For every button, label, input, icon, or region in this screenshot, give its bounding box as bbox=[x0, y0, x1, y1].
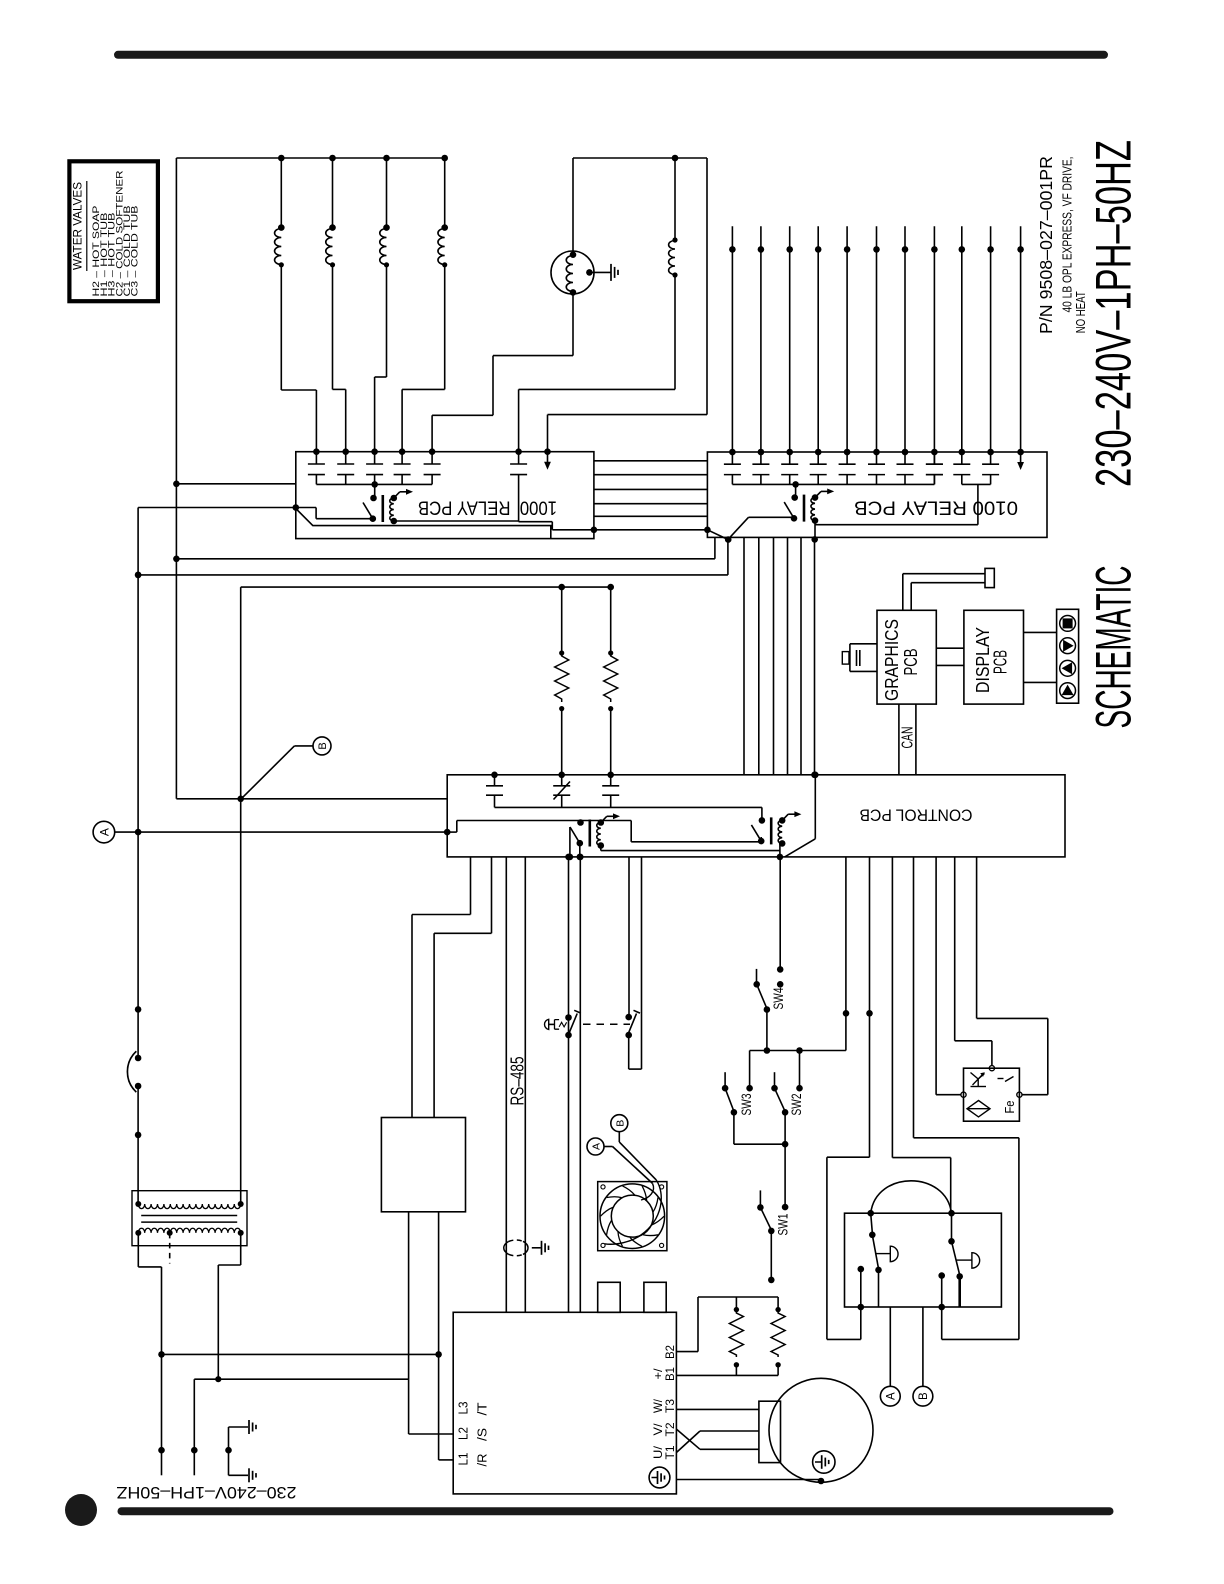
svg-text:T2: T2 bbox=[663, 1422, 677, 1436]
door lock left plunger bbox=[876, 1246, 899, 1262]
display pcb label bbox=[973, 627, 1011, 693]
pump motor M bbox=[551, 158, 594, 296]
relay K1 blade wire bbox=[293, 504, 373, 519]
door lock right blade bbox=[948, 1213, 963, 1307]
speed sensor Fe box bbox=[961, 1066, 1022, 1122]
part number P/N 9508-027-001PR bbox=[1036, 156, 1056, 334]
mains ground terminal bbox=[225, 1420, 256, 1482]
svg-text:T3: T3 bbox=[663, 1399, 677, 1413]
mains wire L2 run bbox=[409, 1379, 454, 1434]
button panel box bbox=[1057, 609, 1079, 703]
wire vfd PE to motor bbox=[676, 1478, 824, 1485]
vfd connector shroud 1 bbox=[598, 1282, 621, 1312]
svg-text:PCB: PCB bbox=[901, 649, 921, 676]
mains label 230-240V-1PH-50HZ bbox=[117, 1483, 297, 1502]
svg-text:A: A bbox=[591, 1143, 603, 1150]
transformer box bbox=[132, 1191, 247, 1246]
wire door sw feed A bbox=[565, 854, 572, 1313]
wire control to Fe right bbox=[977, 857, 1048, 1095]
drain valve coil bbox=[519, 158, 678, 452]
Fe sensor switch icon bbox=[998, 1077, 1014, 1082]
vfd label L1 R bbox=[457, 1452, 490, 1466]
bus wires between relay PCBs bbox=[594, 461, 708, 517]
0100 coil bottom wire bbox=[811, 521, 818, 543]
vfd connector shroud 2 bbox=[644, 1282, 666, 1312]
svg-text:SW2: SW2 bbox=[788, 1093, 804, 1115]
svg-text:1000 RELAY PCB: 1000 RELAY PCB bbox=[418, 497, 557, 518]
wire door sw feed B bbox=[577, 854, 584, 1313]
relay K2 cap feed bbox=[792, 481, 799, 498]
svg-text:SW3: SW3 bbox=[738, 1093, 754, 1115]
svg-text:CONTROL PCB: CONTROL PCB bbox=[860, 806, 973, 825]
wire rail x138 bbox=[138, 508, 296, 1205]
brake resistor R3 bbox=[729, 1297, 743, 1375]
wire control to SW4 bbox=[777, 857, 784, 988]
svg-text:GRAPHICS: GRAPHICS bbox=[882, 619, 902, 701]
door lock left blade bbox=[869, 1213, 882, 1307]
door switch link bbox=[583, 1023, 630, 1025]
wire control pin 913 bbox=[914, 857, 1019, 1340]
wire control pin2 bbox=[434, 857, 491, 1118]
svg-text:A: A bbox=[886, 1392, 898, 1400]
svg-text:/S: /S bbox=[476, 1428, 490, 1441]
valve coil H2 bbox=[275, 155, 317, 452]
resistor R1 bbox=[555, 584, 569, 775]
wire control pin1 bbox=[412, 857, 471, 1118]
svg-text:0100 RELAY PCB: 0100 RELAY PCB bbox=[854, 497, 1018, 518]
valve coil H3 bbox=[375, 155, 390, 452]
svg-text:B: B bbox=[317, 742, 329, 749]
control cap C1 bbox=[486, 772, 503, 808]
wire T3 to motor bbox=[676, 1408, 759, 1410]
svg-text:CAN: CAN bbox=[900, 727, 917, 749]
transformer T1 bbox=[135, 1201, 243, 1236]
label SW4 bbox=[770, 987, 786, 1009]
svg-text:B2: B2 bbox=[663, 1345, 677, 1359]
0100 output wires bbox=[729, 226, 1024, 455]
control MOV RV1 bbox=[553, 772, 570, 808]
bus wire 6 bbox=[591, 527, 732, 543]
label SW1 bbox=[775, 1213, 791, 1235]
0100 relay pcb box bbox=[707, 452, 1047, 537]
control pcb box bbox=[447, 775, 1065, 857]
title SCHEMATIC bbox=[1086, 566, 1142, 729]
wire door lock to node A bbox=[889, 1307, 891, 1386]
vfd ground terminal bbox=[649, 1467, 670, 1488]
CAN label bbox=[900, 727, 917, 749]
graphics pcb box bbox=[877, 610, 936, 704]
node B2 bbox=[913, 1386, 933, 1406]
door switch S2 bbox=[625, 1010, 641, 1069]
RS-485 wires bbox=[506, 857, 525, 1312]
relay coil link wire bbox=[601, 843, 780, 857]
display-button wires bbox=[1024, 632, 1057, 682]
pump ground bbox=[589, 264, 618, 281]
vfd label T2 bbox=[651, 1422, 677, 1436]
0100 pcb arrow pin bbox=[1017, 452, 1024, 470]
door lock solenoid arc bbox=[867, 1181, 954, 1217]
svg-text:T1: T1 bbox=[663, 1445, 677, 1459]
breaker on rail x138 bbox=[127, 1051, 141, 1092]
shelf wire B bbox=[631, 821, 761, 842]
svg-text:B: B bbox=[918, 1392, 930, 1400]
svg-text:230–240V–1PH–50HZ: 230–240V–1PH–50HZ bbox=[117, 1483, 297, 1502]
fan leader A bbox=[587, 1138, 653, 1183]
door lock right terminal bbox=[938, 1272, 945, 1310]
control pcb notch bbox=[777, 772, 819, 861]
svg-text:L1: L1 bbox=[457, 1452, 471, 1465]
brake resistor R4 bbox=[771, 1297, 785, 1375]
svg-text:WATER VALVES: WATER VALVES bbox=[73, 182, 85, 270]
fan leader B bbox=[611, 1115, 656, 1180]
svg-text:C3 – COLD TUB: C3 – COLD TUB bbox=[130, 206, 140, 297]
svg-text:L3: L3 bbox=[457, 1401, 471, 1414]
Fe sensor piezo icon bbox=[967, 1101, 990, 1117]
transformer secondary taps bbox=[138, 1233, 240, 1379]
svg-text:B: B bbox=[614, 1120, 626, 1127]
door plunger icon bbox=[545, 1019, 567, 1029]
svg-text:L2: L2 bbox=[457, 1427, 471, 1440]
pump bottom wire bbox=[432, 292, 573, 451]
mains wire N bbox=[191, 1376, 409, 1475]
antenna wires bbox=[903, 574, 985, 611]
vfd box bbox=[453, 1312, 676, 1494]
relay K2 bbox=[784, 489, 834, 524]
vfd label T3 bbox=[651, 1398, 677, 1413]
antenna plate bbox=[985, 568, 994, 587]
graphics-display wires bbox=[936, 648, 964, 665]
RS-485 label bbox=[507, 1057, 527, 1106]
switch SW2 bbox=[771, 1051, 803, 1207]
vfd label L2 S bbox=[457, 1427, 490, 1441]
Fe label bbox=[1002, 1101, 1017, 1114]
node B bbox=[241, 737, 331, 799]
vfd label T1 bbox=[651, 1445, 677, 1459]
1000 relay pcb label bbox=[418, 497, 557, 518]
valve coil H1 bbox=[326, 155, 346, 452]
top border bar bbox=[114, 51, 1108, 59]
vfd label B2 bbox=[663, 1345, 677, 1359]
door lock left terminal bbox=[858, 1266, 865, 1311]
svg-text:/T: /T bbox=[476, 1402, 490, 1415]
CAN wires bbox=[899, 704, 916, 775]
door switch S1 bbox=[565, 1010, 581, 1038]
svg-text:SW4: SW4 bbox=[770, 987, 786, 1009]
svg-text:B1: B1 bbox=[663, 1367, 677, 1381]
ferrite clamp bbox=[504, 1240, 549, 1256]
drive motor bbox=[769, 1378, 873, 1482]
svg-text:SCHEMATIC: SCHEMATIC bbox=[1086, 566, 1142, 729]
relay K3 bbox=[570, 813, 620, 848]
label SW3 bbox=[738, 1093, 754, 1115]
wire rail x176 junctions bbox=[173, 481, 447, 799]
title 230-240V-1PH-50HZ bbox=[1086, 140, 1142, 487]
0100 pcb caps C9 C10 bbox=[815, 452, 999, 525]
interface box wires down bbox=[409, 1212, 439, 1379]
wire control to SW chain bbox=[843, 857, 850, 1051]
door lock box bbox=[845, 1213, 1002, 1307]
interface box bbox=[381, 1118, 465, 1212]
node A2 bbox=[880, 1386, 900, 1406]
junction dots rail x138 bbox=[135, 572, 142, 1139]
0100 bottom-left wires bbox=[173, 537, 715, 562]
wire control pin 629 bbox=[628, 857, 630, 1017]
1000 pcb input capacitors bbox=[308, 448, 441, 498]
node A bbox=[93, 821, 450, 843]
SW junction wire bbox=[750, 1047, 846, 1054]
binder hole dot bbox=[65, 1494, 97, 1526]
wire 0100 to left D bbox=[135, 540, 728, 579]
top bus wire bbox=[176, 157, 444, 159]
wire rail x240 bbox=[237, 587, 244, 1203]
0100 pcb input capacitors bbox=[724, 452, 943, 484]
relay K3 stubs bbox=[567, 827, 583, 860]
motor terminal box bbox=[759, 1401, 781, 1462]
crystal Y1 bbox=[842, 644, 877, 672]
relay K4 bbox=[751, 811, 801, 846]
1000 relay pcb box bbox=[296, 452, 594, 539]
resistor R2 bbox=[604, 584, 618, 775]
wire control pin 641 bbox=[641, 857, 643, 1069]
svg-text:P/N 9508–027–001PR: P/N 9508–027–001PR bbox=[1036, 156, 1056, 334]
control cap C2 bbox=[602, 772, 619, 808]
wire control pin 869 bbox=[827, 857, 873, 1340]
1000 pcb cap C6 bbox=[510, 448, 594, 529]
shelf wire A2 bbox=[581, 820, 632, 822]
wire T2 cross bbox=[676, 1429, 759, 1449]
svg-text:SW1: SW1 bbox=[775, 1213, 791, 1235]
relay K1 bbox=[363, 489, 413, 524]
valve coil C2 bbox=[402, 155, 448, 452]
svg-text:40 LB OPL EXPRESS, VF DRIVE,: 40 LB OPL EXPRESS, VF DRIVE, bbox=[1061, 157, 1075, 313]
subtitle NO HEAT bbox=[1074, 291, 1088, 333]
wire y587 bbox=[241, 586, 611, 588]
wire B1 brake bus bbox=[676, 1374, 778, 1376]
graphics pcb label bbox=[882, 619, 921, 701]
control pcb label bbox=[860, 806, 973, 825]
door lock right plunger bbox=[957, 1253, 980, 1269]
shelf wire A bbox=[447, 821, 580, 833]
Fe sensor coil icon bbox=[971, 1072, 987, 1086]
1000 pcb arrow pin bbox=[544, 448, 551, 469]
button panel buttons bbox=[1060, 616, 1076, 699]
pump loop wire bbox=[548, 155, 708, 452]
svg-text:NO HEAT: NO HEAT bbox=[1074, 291, 1088, 333]
switch SW3 bbox=[722, 1051, 785, 1145]
wire left bus drop bbox=[175, 158, 177, 799]
wire door lock to node B bbox=[922, 1307, 924, 1386]
wire control to Fe top bbox=[955, 857, 992, 1066]
subtitle 40 LB OPL EXPRESS, VF DRIVE, bbox=[1061, 157, 1075, 313]
water valves legend box bbox=[69, 161, 157, 301]
svg-text:230–240V–1PH–50HZ: 230–240V–1PH–50HZ bbox=[1086, 140, 1142, 487]
mains wire L1 run bbox=[439, 1354, 454, 1460]
display pcb box bbox=[964, 610, 1024, 704]
label SW2 bbox=[788, 1093, 804, 1115]
svg-text:PCB: PCB bbox=[991, 650, 1011, 674]
svg-text:A: A bbox=[97, 828, 111, 836]
wire B2 to brake bus bbox=[676, 1297, 778, 1352]
relay K1 coil bottom wire bbox=[394, 520, 519, 522]
control cap bus wire bbox=[495, 807, 762, 820]
ribbon wires 0100 to control pcb bbox=[744, 537, 818, 778]
motor ground symbol bbox=[813, 1451, 835, 1473]
wire control pin 892 bbox=[892, 857, 950, 1213]
switch SW4 bbox=[753, 969, 770, 1054]
svg-text:/R: /R bbox=[476, 1454, 490, 1467]
switch SW1 bbox=[757, 1190, 788, 1283]
1000 pcb bevel wire bbox=[296, 509, 551, 539]
bottom border bar bbox=[118, 1507, 1114, 1515]
mains wire L bbox=[158, 1351, 442, 1475]
wire control to Fe left bbox=[936, 857, 961, 1095]
wire T1 cross bbox=[676, 1431, 759, 1453]
cooling fan bbox=[598, 1180, 667, 1251]
svg-text:RS–485: RS–485 bbox=[507, 1057, 527, 1106]
vfd label B1 bbox=[651, 1367, 677, 1381]
svg-text:Fe: Fe bbox=[1002, 1101, 1017, 1114]
vfd label L3 T bbox=[457, 1401, 490, 1415]
0100 relay pcb label bbox=[854, 497, 1018, 518]
relay K2 blade wire bbox=[728, 517, 794, 539]
